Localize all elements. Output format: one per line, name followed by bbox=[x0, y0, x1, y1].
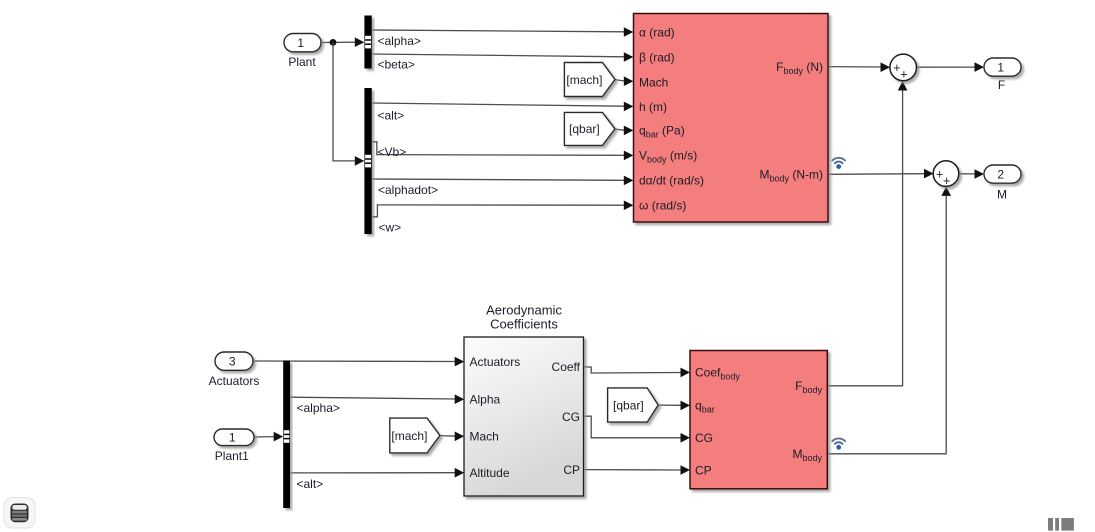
wire alt signal bbox=[372, 102, 634, 112]
svg-text:Mach: Mach bbox=[470, 430, 499, 444]
wire alpha bottom signal bbox=[290, 394, 464, 404]
wire alpha signal bbox=[372, 27, 634, 37]
wire block2 Fbody up to Sum1 bbox=[828, 81, 908, 386]
bus selector B2 bbox=[364, 88, 371, 234]
svg-text:3: 3 bbox=[229, 354, 236, 368]
wire alphadot signal bbox=[372, 176, 634, 186]
outport 2 M bbox=[984, 165, 1021, 201]
bus selector B3 bbox=[283, 361, 290, 509]
wireless logging badge 1 bbox=[832, 158, 845, 169]
svg-text:+: + bbox=[943, 174, 950, 188]
svg-text:dα/dt (rad/s): dα/dt (rad/s) bbox=[639, 174, 704, 188]
inport 1 Plant1 bbox=[214, 429, 254, 463]
from tag [mach] bottom bbox=[390, 418, 440, 453]
label <Vb> bbox=[378, 145, 407, 159]
svg-text:[mach]: [mach] bbox=[391, 429, 427, 443]
svg-text:Actuators: Actuators bbox=[209, 374, 260, 388]
svg-text:Mach: Mach bbox=[639, 75, 668, 89]
wire beta signal bbox=[372, 52, 634, 62]
label <alpha> bbox=[378, 34, 421, 48]
wire Actuators to Aero block bbox=[253, 357, 464, 367]
outport 1 F bbox=[984, 58, 1021, 92]
svg-text:CP: CP bbox=[563, 463, 580, 477]
inport 3 Actuators bbox=[209, 352, 260, 388]
wire Coeff to Coef_body bbox=[584, 367, 691, 377]
node junction on Plant wire bbox=[330, 39, 337, 46]
svg-text:Coefficients: Coefficients bbox=[490, 317, 558, 332]
svg-text:+: + bbox=[900, 68, 907, 82]
svg-text:<w>: <w> bbox=[379, 220, 402, 234]
svg-text:CG: CG bbox=[562, 410, 580, 424]
svg-text:<alpha>: <alpha> bbox=[297, 401, 340, 415]
wire Plant to BusSelector1 bbox=[321, 37, 364, 47]
svg-text:α (rad): α (rad) bbox=[639, 25, 675, 39]
wire mach tag2 to Mach input bbox=[440, 432, 464, 442]
label <alt> bbox=[378, 109, 405, 123]
svg-text:<Vb>: <Vb> bbox=[378, 145, 407, 159]
svg-text:<alphadot>: <alphadot> bbox=[378, 183, 438, 197]
svg-text:1: 1 bbox=[997, 60, 1004, 74]
svg-text:ω (rad/s): ω (rad/s) bbox=[639, 199, 686, 213]
wire Mbody to Sum2 bbox=[828, 169, 934, 179]
block name Aerodynamic Coefficients bbox=[486, 303, 562, 332]
svg-text:Plant: Plant bbox=[288, 55, 316, 69]
svg-text:1: 1 bbox=[229, 431, 236, 445]
inport 1 Plant bbox=[284, 34, 321, 70]
subsystem block Aerodynamic Coefficients bbox=[464, 337, 584, 496]
svg-text:Alpha: Alpha bbox=[470, 393, 501, 407]
svg-text:1: 1 bbox=[297, 36, 304, 50]
label <beta> bbox=[378, 58, 415, 72]
label <alt> bottom bbox=[297, 477, 324, 491]
svg-text:<alpha>: <alpha> bbox=[378, 34, 421, 48]
svg-text:[qbar]: [qbar] bbox=[613, 398, 644, 412]
svg-text:Altitude: Altitude bbox=[470, 466, 510, 480]
svg-text:CP: CP bbox=[695, 463, 712, 477]
wireless logging badge 2 bbox=[832, 438, 845, 449]
status bar grip bottom-right bbox=[1048, 518, 1074, 531]
svg-text:h (m): h (m) bbox=[639, 100, 667, 114]
sum block Sum2 bbox=[933, 161, 959, 188]
svg-text:Coeff: Coeff bbox=[552, 360, 581, 374]
svg-text:2: 2 bbox=[997, 167, 1004, 181]
svg-text:[mach]: [mach] bbox=[566, 73, 602, 87]
from tag [mach] top bbox=[564, 63, 615, 97]
subsystem block Aerodynamic Forces and Moments (pink block 1) bbox=[634, 14, 829, 223]
svg-text:[qbar]: [qbar] bbox=[569, 122, 600, 136]
subsystem block Aerodynamic Forces and Moments (pink block 2) bbox=[690, 351, 827, 489]
svg-text:<alt>: <alt> bbox=[297, 477, 324, 491]
wire CG to CG input bbox=[584, 416, 691, 442]
wire Plant1 to BusSelector3 bbox=[254, 432, 283, 442]
svg-text:Mbody (N-m): Mbody (N-m) bbox=[759, 168, 823, 184]
svg-text:M: M bbox=[997, 187, 1007, 201]
model data badge bottom-left bbox=[4, 498, 35, 529]
wire Sum1 to outport F bbox=[917, 62, 985, 72]
svg-text:F: F bbox=[998, 78, 1005, 92]
wire mach tag to Mach input bbox=[615, 76, 633, 86]
svg-text:β (rad): β (rad) bbox=[639, 50, 675, 64]
svg-text:Plant1: Plant1 bbox=[215, 449, 249, 463]
wire w signal bbox=[372, 201, 634, 217]
wire qbar tag2 to qbar input bbox=[658, 401, 690, 411]
svg-text:<alt>: <alt> bbox=[378, 109, 405, 123]
wire qbar tag to qbar input bbox=[615, 126, 633, 136]
from tag [qbar] top bbox=[564, 112, 615, 145]
from tag [qbar] bottom bbox=[608, 388, 659, 422]
svg-text:Aerodynamic: Aerodynamic bbox=[486, 303, 562, 318]
svg-text:Actuators: Actuators bbox=[470, 355, 521, 369]
svg-text:CG: CG bbox=[695, 431, 713, 445]
wire Sum2 to outport M bbox=[959, 169, 984, 179]
wire Fbody to Sum1 bbox=[828, 62, 890, 72]
svg-text:<beta>: <beta> bbox=[378, 58, 415, 72]
wire alt bottom signal bbox=[290, 468, 464, 478]
wire block2 Mbody up to Sum2 bbox=[828, 186, 952, 453]
wire CP to CP input bbox=[584, 465, 691, 475]
label <w> bbox=[379, 220, 402, 234]
wire branch Plant to BusSelector2 bbox=[333, 42, 364, 165]
label <alphadot> bbox=[378, 183, 438, 197]
bus selector B1 bbox=[364, 16, 371, 69]
label <alpha> bottom bbox=[297, 401, 340, 415]
sum block Sum1 bbox=[890, 54, 917, 81]
wire Vb signal bbox=[372, 142, 634, 160]
